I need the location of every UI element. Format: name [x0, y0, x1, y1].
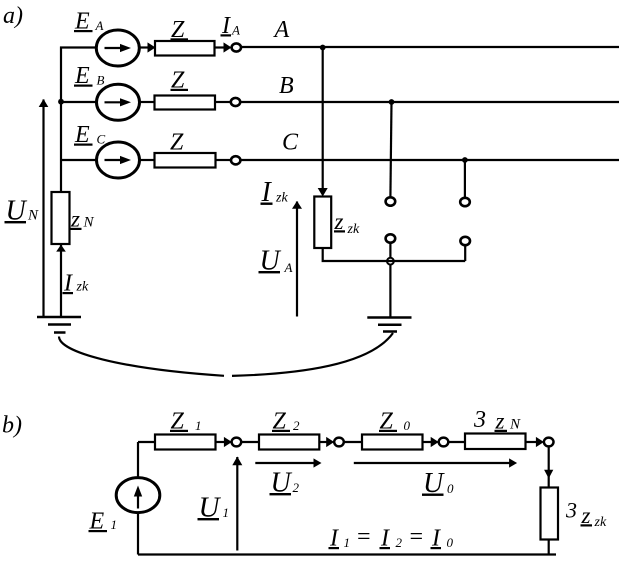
svg-text:zk: zk: [76, 280, 89, 295]
svg-text:A: A: [231, 23, 240, 38]
svg-text:A: A: [95, 18, 104, 33]
svg-text:3: 3: [565, 498, 577, 523]
svg-text:=: =: [356, 524, 372, 550]
svg-text:zk: zk: [347, 222, 360, 237]
svg-text:0: 0: [447, 535, 454, 550]
svg-text:B: B: [279, 73, 294, 99]
svg-text:0: 0: [447, 481, 454, 496]
svg-text:1: 1: [195, 418, 202, 433]
svg-text:1: 1: [111, 517, 118, 532]
svg-text:2: 2: [293, 418, 300, 433]
svg-text:1: 1: [223, 505, 230, 520]
svg-text:z: z: [495, 409, 505, 434]
svg-text:b): b): [2, 413, 22, 439]
svg-text:=: =: [408, 524, 424, 550]
svg-text:2: 2: [396, 535, 403, 550]
svg-text:3: 3: [473, 407, 486, 433]
svg-text:N: N: [83, 215, 95, 231]
svg-text:0: 0: [404, 418, 411, 433]
svg-text:z: z: [581, 503, 591, 528]
svg-text:z: z: [70, 207, 80, 232]
svg-text:2: 2: [293, 480, 300, 495]
svg-text:C: C: [282, 130, 299, 156]
svg-text:zk: zk: [594, 515, 607, 530]
svg-text:a): a): [3, 3, 23, 29]
svg-text:1: 1: [344, 535, 351, 550]
svg-text:N: N: [509, 417, 521, 433]
svg-text:Z: Z: [170, 130, 184, 156]
svg-text:zk: zk: [275, 191, 288, 206]
svg-text:C: C: [97, 132, 106, 147]
svg-text:z: z: [334, 209, 344, 234]
svg-text:A: A: [284, 260, 293, 275]
svg-text:A: A: [273, 17, 290, 43]
svg-text:N: N: [27, 208, 39, 224]
svg-text:B: B: [97, 73, 105, 88]
